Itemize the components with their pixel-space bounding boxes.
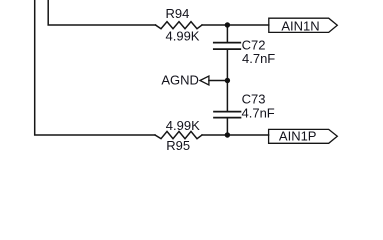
svg-text:4.99K: 4.99K (166, 28, 200, 43)
junction node at R95 / C73 (225, 132, 230, 137)
svg-text:R94: R94 (166, 6, 190, 21)
off-page connector flag AIN1N (269, 18, 338, 32)
resistor R94 (156, 22, 203, 29)
svg-text:4.7nF: 4.7nF (242, 51, 275, 66)
svg-text:AGND: AGND (161, 73, 199, 88)
wire: AGND triangle to vertical bus (209, 80, 228, 82)
wire: left vertical rail to bottom row (35, 0, 155, 135)
svg-text:4.99K: 4.99K (166, 118, 200, 133)
svg-text:R95: R95 (166, 138, 190, 153)
capacitor C73 (214, 112, 241, 118)
wire: R95 to AIN1P flag (202, 134, 269, 136)
resistor R95 (155, 131, 202, 138)
svg-text:4.7nF: 4.7nF (242, 105, 275, 120)
wire: C73 to bottom row (226, 118, 228, 135)
svg-text:AIN1N: AIN1N (281, 18, 319, 33)
wire: second vertical rail to top row (48, 0, 155, 25)
junction node at AGND (225, 78, 230, 83)
capacitor C72 (214, 43, 241, 50)
off-page connector flag AIN1P (269, 129, 338, 143)
wire: C72 to AGND node (226, 50, 228, 81)
wire: R94 to AIN1N flag (202, 24, 269, 26)
ground symbol AGND triangle (200, 76, 209, 85)
svg-text:AIN1P: AIN1P (279, 129, 317, 144)
junction node at R94 / C72 (225, 22, 230, 27)
wire: top stub to C72 (226, 25, 228, 42)
wire: AGND node to C73 (226, 81, 228, 111)
